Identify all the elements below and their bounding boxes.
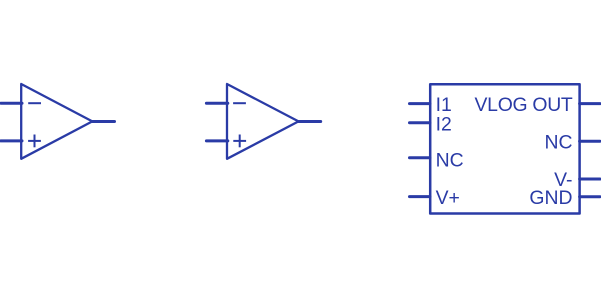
wire U2 inverting input lead <box>206 102 227 105</box>
U2 plus sign <box>233 135 246 148</box>
U3 pin NC right lead <box>580 140 600 143</box>
U3 pin V- lead <box>580 178 600 181</box>
U3 pin NC left lead <box>410 156 431 159</box>
svg-text:I2: I2 <box>436 113 452 135</box>
U2 minus sign <box>233 102 246 104</box>
wire U2 output lead <box>299 120 321 123</box>
U1 plus sign <box>28 135 41 148</box>
svg-text:VLOG OUT: VLOG OUT <box>475 94 573 116</box>
wire U1 inverting input lead <box>1 102 22 105</box>
U3 pin GND lead <box>580 195 600 198</box>
wire U2 non-inverting input lead <box>206 139 227 142</box>
U3 pin V+ lead <box>410 195 431 198</box>
svg-text:NC: NC <box>436 150 464 172</box>
op-amp U2 <box>227 84 299 159</box>
U3 pin I2 lead <box>410 121 431 124</box>
wire U1 output lead <box>92 120 114 123</box>
svg-text:NC: NC <box>544 132 572 154</box>
U3 pin VLOG OUT lead <box>580 102 600 105</box>
U3 pin I1 lead <box>410 102 431 105</box>
op-amp U1 <box>21 84 92 159</box>
svg-text:GND: GND <box>529 187 572 209</box>
wire U1 non-inverting input lead <box>1 139 22 142</box>
svg-text:V+: V+ <box>436 187 460 209</box>
IC U3 body <box>430 84 579 213</box>
U1 minus sign <box>28 102 41 104</box>
